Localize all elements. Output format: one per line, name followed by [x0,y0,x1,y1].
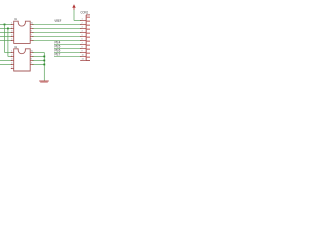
wire bus B elbow to IC2 pin 2 [8,55,12,57]
IC2 pin 8 (right) [30,59,33,61]
IC2 pin 3 (left) [11,59,14,61]
wire net PE7 to connector [54,55,81,57]
IC2 pin 4 (left) [11,63,14,65]
svg-text:6: 6 [82,39,83,41]
wire row y32.5 IC1 pin8 to connector [33,31,81,33]
IC2 pin 9 (right) [30,55,33,57]
svg-text:10: 10 [31,51,33,53]
svg-text:3: 3 [11,59,12,61]
IC U1 DIP body [14,21,31,43]
svg-text:4: 4 [11,35,12,37]
wire IC2 pin10 to GND bus [33,51,45,53]
svg-text:5: 5 [11,39,12,41]
svg-text:3: 3 [82,27,83,29]
svg-text:3: 3 [11,31,12,33]
svg-text:PE7: PE7 [55,52,61,56]
connector CON1 top edge [86,14,90,16]
svg-text:7: 7 [82,43,83,45]
svg-text:11: 11 [82,59,84,61]
IC1 pin 9 (right) [30,27,33,29]
IC1 pin 7 (right) [30,35,33,37]
svg-text:IC2: IC2 [14,45,17,49]
wire net row2 y28.4 from sheet edge to IC1 pin 2 [0,27,12,29]
wire net row5 to IC1 pin 5 [0,39,12,41]
IC1 pin 10 (right) [30,23,33,25]
svg-text:1: 1 [82,19,83,21]
svg-text:4: 4 [11,63,12,65]
wire row y28.4 IC1 pin9 to connector [33,27,81,29]
wire IC2 pin9 to GND bus [33,55,45,57]
wire row0 power stub to connector pin 1 [74,19,81,21]
connector pin 3 with pad [80,27,86,29]
connector pin 5 with pad [80,35,86,37]
junction on bus B at row2 [7,28,9,30]
connector pin 2 with pad [80,23,86,25]
svg-text:2: 2 [11,55,12,57]
wire bus B vertical x=7.8 down to IC2 pin 2 row [7,28,9,56]
wire net PE4 to connector [54,43,81,45]
wire net row4 to IC1 pin 4 [0,35,12,37]
connector pin 7 with pad [80,43,86,45]
connector pin 10 with pad [80,55,86,57]
wire IC2 pin7 to GND bus [33,63,45,65]
svg-text:7: 7 [31,35,32,37]
wire net row11 from sheet edge to IC2 pin 4 [0,63,12,65]
wire row y36.5 IC1 pin7 to connector [33,35,81,37]
wire net row1 y24.4 from sheet edge to IC1 pin 1 [0,23,12,25]
wire net row10 from sheet edge to IC2 pin 3 [0,59,12,61]
svg-text:7: 7 [31,63,32,65]
IC2 pin 10 (right) [30,51,33,53]
IC2 pin 5 (left) [11,67,14,69]
svg-text:6: 6 [31,39,32,41]
junction on bus A at row1 [4,24,6,26]
connector pin 9 with pad [80,51,86,53]
svg-text:9: 9 [31,27,32,29]
connector pin 1 with pad [80,19,86,21]
IC2 pin 1 (left) [11,51,14,53]
connector pin 6 with pad [80,39,86,41]
wire VREF power stub [73,10,75,21]
connector CON1 body left edge [85,15,87,61]
junction GND bus row11 [43,64,45,66]
IC1 pin 4 (left) [11,35,14,37]
svg-text:5: 5 [11,67,12,69]
wire net PE5 to connector [54,47,81,49]
svg-text:2: 2 [82,23,83,25]
svg-text:8: 8 [82,47,83,49]
svg-text:8: 8 [31,59,32,61]
svg-text:10: 10 [31,23,33,25]
IC1 pin 2 (left) [11,27,14,29]
wire row y40.5 IC1 pin6 to connector [33,39,81,41]
IC1 pin 1 (left) [11,23,14,25]
wire bus A vertical x=4.6 down to IC2 pin 1 row [4,24,6,52]
wire GND bus vertical [43,52,45,80]
svg-text:4: 4 [82,31,83,33]
svg-text:2: 2 [11,27,12,29]
IC1 pin 6 (right) [30,39,33,41]
ground symbol GND [39,80,49,82]
svg-text:9: 9 [31,55,32,57]
connector pin 8 with pad [80,47,86,49]
IC U2 DIP body [14,49,31,71]
wire bus A elbow to IC2 pin 1 [5,51,12,53]
connector pin 11 with pad [80,59,86,61]
power symbol VREF arrow [72,4,75,8]
svg-text:IC1: IC1 [14,17,17,21]
connector pin 4 with pad [80,31,86,33]
svg-text:5: 5 [82,35,83,37]
wire net VREF row y24.4 IC1 pin10 to connector [33,23,81,25]
junction GND bus row9 [43,56,45,58]
IC1 pin 5 (left) [11,39,14,41]
IC1 pin 3 (left) [11,31,14,33]
wire IC2 pin8 to GND bus [33,59,45,61]
connector CON1 bottom edge [86,60,90,62]
svg-text:1: 1 [11,23,12,25]
wire net row3 to IC1 pin 3 [0,31,12,33]
svg-text:9: 9 [82,51,83,53]
svg-text:1: 1 [11,51,12,53]
svg-text:VREF: VREF [54,19,61,23]
svg-text:CON1: CON1 [81,10,89,14]
IC2 pin 2 (left) [11,55,14,57]
wire net PE6 to connector [54,51,81,53]
IC2 pin 7 (right) [30,63,33,65]
IC1 pin 8 (right) [30,31,33,33]
junction GND bus row10 [43,60,45,62]
svg-text:8: 8 [31,31,32,33]
svg-text:10: 10 [82,55,84,57]
